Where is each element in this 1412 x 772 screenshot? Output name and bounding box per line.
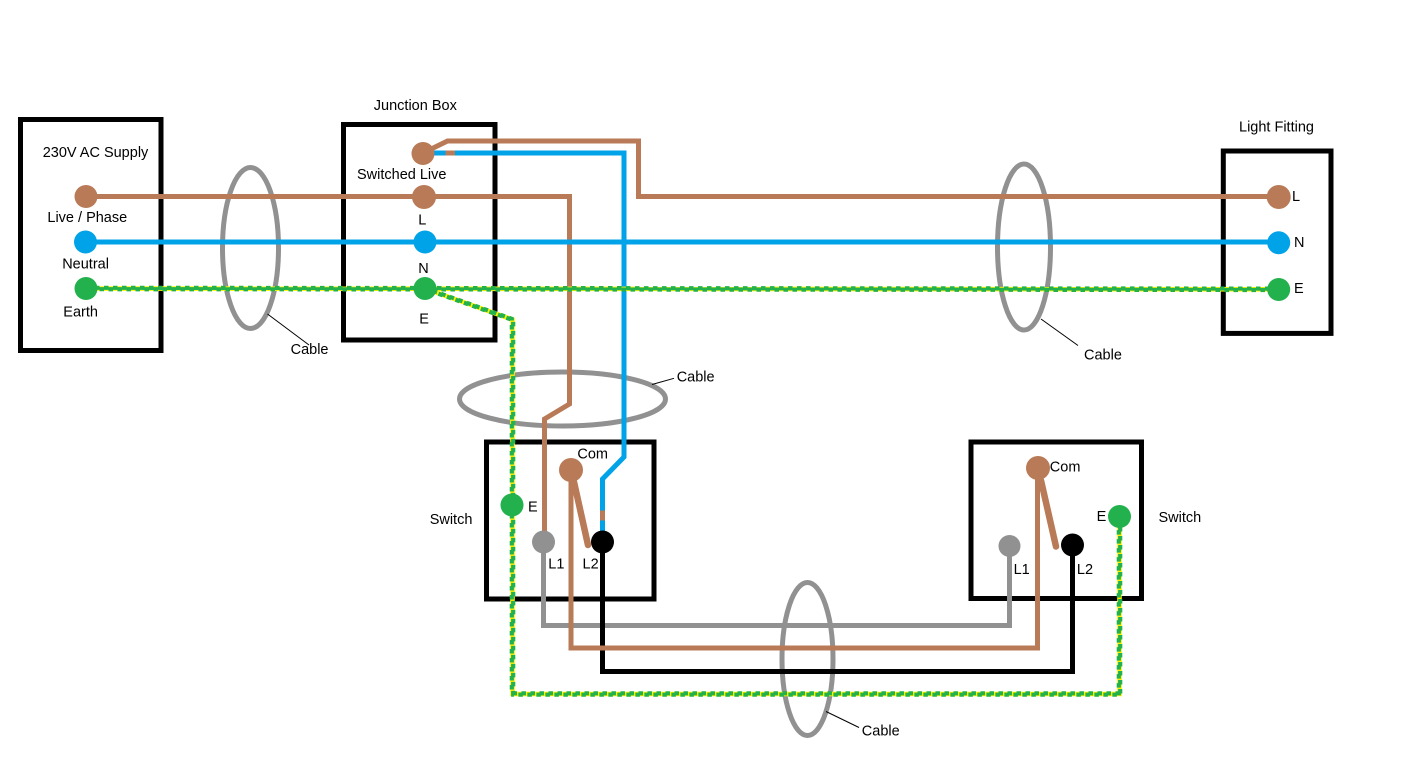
left switch lever: [574, 482, 588, 545]
svg-text:L1: L1: [548, 557, 564, 573]
svg-text:Live / Phase: Live / Phase: [47, 210, 127, 226]
230V AC Supply box: [21, 120, 162, 351]
pointer line cable middle: [652, 378, 674, 384]
wire earth green dashes: supply E to light fitting E: [86, 286, 1279, 291]
svg-text:L: L: [418, 213, 426, 229]
svg-text:Switch: Switch: [1159, 510, 1202, 526]
svg-text:L: L: [1292, 189, 1300, 205]
cable ellipse left (supply to junction): [223, 168, 279, 329]
svg-text:N: N: [418, 261, 428, 277]
svg-text:E: E: [1294, 281, 1304, 297]
svg-text:Com: Com: [577, 447, 608, 463]
wire live brown: supply L to junction L then down to left switch L1: [86, 197, 570, 543]
svg-text:E: E: [528, 500, 538, 516]
svg-text:Neutral: Neutral: [62, 257, 109, 273]
svg-text:Junction Box: Junction Box: [374, 98, 458, 114]
brown sleeve on blue at junction: [446, 151, 456, 156]
terminal junction L: [412, 185, 436, 209]
svg-text:230V AC Supply: 230V AC Supply: [43, 145, 149, 161]
svg-text:L1: L1: [1014, 562, 1030, 578]
svg-text:Cable: Cable: [862, 723, 900, 739]
terminal junction E: [414, 277, 437, 300]
pointer line cable left: [268, 314, 310, 345]
terminal right switch L1: [999, 535, 1021, 557]
wire switched live brown: junction SwL to light fitting L: [423, 141, 1279, 197]
terminal left switch L2: [591, 531, 614, 554]
cable ellipse right (junction to light fitting): [998, 164, 1051, 330]
svg-text:Cable: Cable: [291, 342, 329, 358]
cable ellipse middle (junction to left switch): [460, 372, 666, 426]
terminal right switch L2: [1061, 534, 1084, 557]
svg-text:Cable: Cable: [1084, 348, 1122, 364]
terminal light E: [1267, 278, 1290, 301]
right Switch box: [971, 442, 1142, 599]
wire grey strapper: left switch L1 to right switch L1: [544, 542, 1010, 626]
pointer line cable bottom: [826, 712, 859, 728]
terminal supply Earth: [75, 277, 98, 300]
svg-text:Earth: Earth: [63, 305, 98, 321]
svg-text:Cable: Cable: [677, 370, 715, 386]
terminal left switch E: [501, 494, 524, 517]
left Switch box: [487, 442, 655, 599]
terminal right switch E: [1108, 505, 1131, 528]
terminal junction N: [414, 231, 437, 254]
wire blue switched live return: junction SwL to left switch L2: [423, 153, 624, 542]
Junction Box outline: [344, 125, 496, 341]
brown sleeve on blue at left switch L2: [600, 511, 605, 521]
svg-text:E: E: [1097, 509, 1107, 525]
wire neutral blue: supply N to light fitting N: [86, 240, 1279, 245]
Light Fitting box: [1223, 151, 1331, 333]
terminal junction Switched Live: [412, 142, 435, 165]
terminal right switch Com: [1026, 456, 1050, 480]
terminal supply Live: [75, 185, 98, 208]
svg-text:L2: L2: [583, 557, 599, 573]
terminal left switch L1: [532, 531, 555, 554]
svg-text:Com: Com: [1050, 460, 1081, 476]
svg-text:E: E: [419, 312, 429, 328]
wire earth branch green dashes: [424, 288, 1119, 694]
svg-text:N: N: [1294, 235, 1304, 251]
wire brown strapper: left switch Com to right switch Com: [571, 468, 1038, 648]
terminal left switch Com: [559, 458, 583, 482]
right switch lever: [1041, 481, 1056, 547]
svg-text:Switch: Switch: [430, 512, 473, 528]
cable ellipse bottom (switch to switch): [782, 583, 833, 736]
svg-text:Light Fitting: Light Fitting: [1239, 120, 1314, 136]
terminal supply Neutral: [74, 231, 97, 254]
svg-text:L2: L2: [1077, 562, 1093, 578]
pointer line cable right: [1041, 319, 1078, 346]
wire black strapper: left switch L2 to right switch L2: [603, 542, 1073, 672]
wire earth branch yellow: junction E down to switches: [425, 289, 1120, 695]
svg-text:Switched Live: Switched Live: [357, 167, 446, 183]
terminal light N: [1267, 231, 1290, 254]
wire earth yellow base: supply E to light fitting E: [86, 286, 1279, 291]
terminal light L: [1267, 185, 1291, 209]
